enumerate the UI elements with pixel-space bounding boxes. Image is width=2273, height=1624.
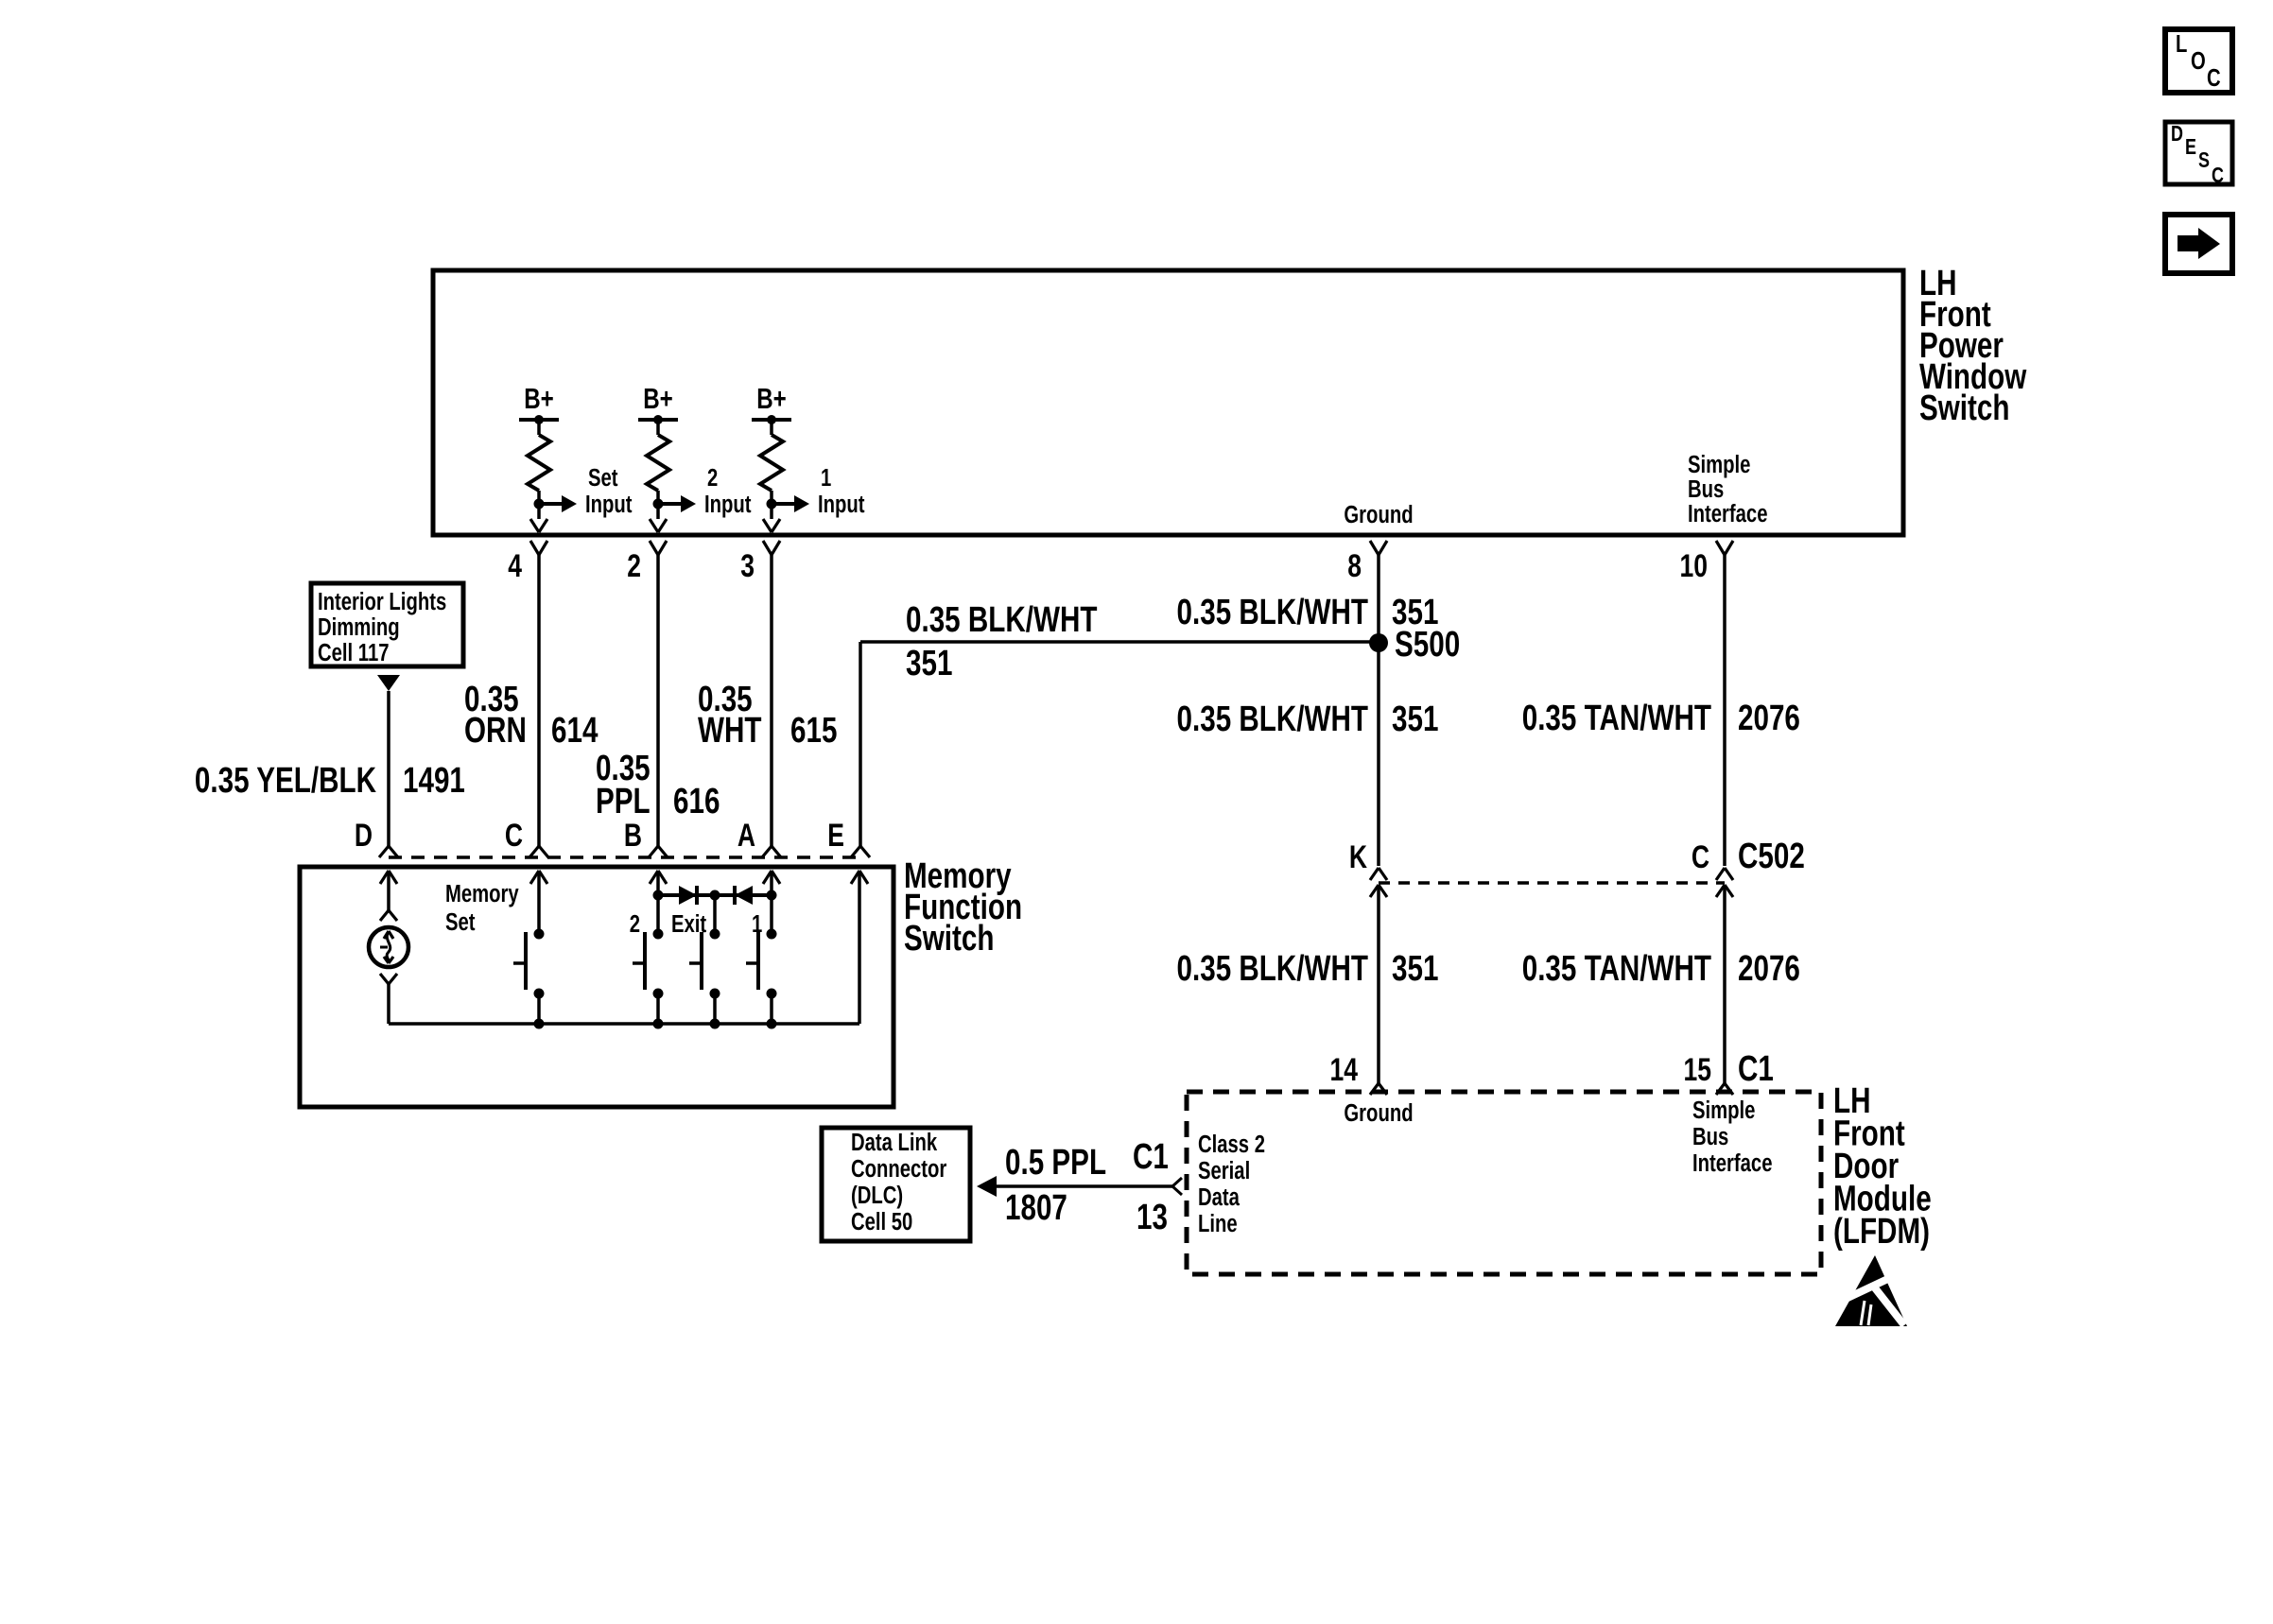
svg-text:1491: 1491 bbox=[403, 761, 465, 801]
svg-text:K: K bbox=[1349, 839, 1367, 875]
svg-text:Interface: Interface bbox=[1688, 500, 1768, 527]
svg-text:(LFDM): (LFDM) bbox=[1833, 1212, 1930, 1252]
svg-text:Interface: Interface bbox=[1692, 1149, 1773, 1177]
svg-text:Dimming: Dimming bbox=[318, 613, 400, 641]
svg-text:C1: C1 bbox=[1133, 1137, 1169, 1177]
svg-text:Switch: Switch bbox=[1919, 389, 2009, 428]
svg-text:A: A bbox=[737, 818, 755, 854]
svg-text:Exit: Exit bbox=[671, 910, 706, 938]
svg-text:Cell 50: Cell 50 bbox=[851, 1208, 912, 1235]
svg-text:351: 351 bbox=[1392, 700, 1438, 739]
svg-text:614: 614 bbox=[551, 711, 598, 751]
svg-text:WHT: WHT bbox=[698, 711, 762, 751]
svg-text:ORN: ORN bbox=[464, 711, 527, 751]
svg-text:Set: Set bbox=[445, 908, 476, 936]
svg-text:4: 4 bbox=[508, 548, 522, 584]
svg-text:Interior Lights: Interior Lights bbox=[318, 588, 446, 615]
svg-text:2076: 2076 bbox=[1738, 949, 1800, 989]
svg-text:Data: Data bbox=[1198, 1183, 1241, 1211]
svg-text:616: 616 bbox=[673, 782, 720, 821]
svg-text:Input: Input bbox=[585, 491, 633, 518]
svg-text:2: 2 bbox=[627, 548, 641, 584]
svg-text:15: 15 bbox=[1683, 1052, 1711, 1088]
svg-text:351: 351 bbox=[906, 644, 952, 683]
svg-text:E: E bbox=[2185, 135, 2196, 160]
svg-text:(DLC): (DLC) bbox=[851, 1182, 903, 1209]
svg-text:Set: Set bbox=[588, 464, 618, 492]
svg-text:B: B bbox=[624, 818, 642, 854]
svg-text:C1: C1 bbox=[1738, 1049, 1774, 1089]
svg-text:2076: 2076 bbox=[1738, 699, 1800, 738]
svg-text:0.35 YEL/BLK: 0.35 YEL/BLK bbox=[195, 761, 376, 801]
svg-text:C: C bbox=[2212, 164, 2224, 188]
svg-text:C: C bbox=[505, 818, 523, 854]
svg-text:Bus: Bus bbox=[1692, 1123, 1728, 1150]
svg-text:14: 14 bbox=[1329, 1052, 1358, 1088]
svg-text:C: C bbox=[2207, 64, 2221, 92]
svg-text:8: 8 bbox=[1347, 548, 1362, 584]
svg-text:1: 1 bbox=[752, 910, 762, 938]
svg-text:C: C bbox=[1692, 839, 1709, 875]
svg-text:Cell 117: Cell 117 bbox=[318, 639, 389, 666]
svg-text:Ground: Ground bbox=[1344, 501, 1413, 528]
svg-text:D: D bbox=[2171, 122, 2183, 147]
svg-text:Memory: Memory bbox=[445, 880, 519, 907]
svg-text:351: 351 bbox=[1392, 949, 1438, 989]
svg-text:D: D bbox=[355, 818, 373, 854]
svg-text:Class 2: Class 2 bbox=[1198, 1131, 1265, 1158]
svg-text:0.35 TAN/WHT: 0.35 TAN/WHT bbox=[1522, 699, 1711, 738]
svg-text:3: 3 bbox=[740, 548, 755, 584]
svg-text:13: 13 bbox=[1136, 1198, 1168, 1237]
svg-text:Line: Line bbox=[1198, 1210, 1238, 1237]
svg-text:1807: 1807 bbox=[1005, 1188, 1067, 1228]
svg-text:E: E bbox=[827, 818, 844, 854]
svg-text:1: 1 bbox=[821, 464, 831, 492]
svg-text:Ground: Ground bbox=[1344, 1099, 1413, 1127]
svg-text:0.35 BLK/WHT: 0.35 BLK/WHT bbox=[1177, 949, 1369, 989]
svg-text:Switch: Switch bbox=[904, 919, 994, 959]
svg-text:0.35 BLK/WHT: 0.35 BLK/WHT bbox=[1177, 700, 1369, 739]
svg-text:S500: S500 bbox=[1395, 625, 1460, 665]
svg-text:Data Link: Data Link bbox=[851, 1129, 937, 1156]
svg-text:0.35 BLK/WHT: 0.35 BLK/WHT bbox=[1177, 593, 1369, 632]
svg-text:Simple: Simple bbox=[1692, 1097, 1755, 1124]
svg-text:10: 10 bbox=[1679, 548, 1708, 584]
svg-text:Serial: Serial bbox=[1198, 1157, 1250, 1184]
svg-text:0.5 PPL: 0.5 PPL bbox=[1005, 1143, 1106, 1183]
svg-text:Bus: Bus bbox=[1688, 475, 1724, 503]
svg-text:2: 2 bbox=[630, 910, 640, 938]
svg-text:2: 2 bbox=[707, 464, 718, 492]
svg-text:B+: B+ bbox=[756, 382, 787, 415]
svg-text:B+: B+ bbox=[524, 382, 554, 415]
svg-text:C502: C502 bbox=[1738, 837, 1805, 876]
svg-text:S: S bbox=[2198, 148, 2210, 173]
svg-text:0.35 TAN/WHT: 0.35 TAN/WHT bbox=[1522, 949, 1711, 989]
svg-text:B+: B+ bbox=[643, 382, 673, 415]
svg-text:Input: Input bbox=[704, 491, 752, 518]
svg-text:Input: Input bbox=[818, 491, 865, 518]
svg-text:PPL: PPL bbox=[596, 782, 651, 821]
svg-text:O: O bbox=[2191, 47, 2206, 75]
svg-text:615: 615 bbox=[790, 711, 837, 751]
svg-text:L: L bbox=[2176, 30, 2187, 58]
svg-text:Simple: Simple bbox=[1688, 451, 1750, 478]
svg-text:Connector: Connector bbox=[851, 1155, 946, 1183]
svg-text:0.35 BLK/WHT: 0.35 BLK/WHT bbox=[906, 600, 1098, 640]
